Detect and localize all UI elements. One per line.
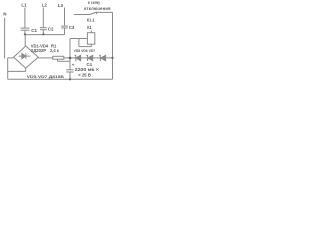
wire K1 top stub	[90, 30, 92, 32]
svg-text:C2: C2	[48, 27, 54, 32]
bridge internal diode wire	[19, 55, 31, 57]
wire bridge bottom stub	[25, 68, 27, 71]
svg-text:C1: C1	[31, 28, 37, 33]
wire N vertical	[4, 18, 6, 59]
wire K1 return vertical	[78, 39, 80, 47]
wire C3 bottom lead	[64, 28, 66, 35]
wire bottom apex to left vertical	[8, 70, 26, 72]
node R1 output junction	[69, 57, 72, 60]
capacitor C2 plates	[40, 27, 47, 29]
wire VD6 to VD7	[93, 57, 101, 59]
node VD7 right junction	[111, 57, 113, 59]
wire C2 bottom lead	[42, 30, 44, 35]
wire VD5 to VD6	[81, 57, 88, 59]
capacitor C3 plates	[61, 25, 68, 27]
capacitor C4 plates	[66, 69, 73, 71]
svg-text:VD5-VD7 Д815Б: VD5-VD7 Д815Б	[27, 74, 64, 79]
svg-text:VD5 VD6 VD7: VD5 VD6 VD7	[74, 48, 96, 53]
zener diode VD6	[87, 55, 89, 61]
resistor R1	[53, 56, 64, 59]
capacitor C1 plates	[21, 27, 30, 29]
bridge internal diode	[22, 54, 26, 59]
wire VD7 to right vertical	[106, 57, 113, 59]
wire right vertical	[112, 12, 114, 79]
svg-text:К1: К1	[87, 25, 92, 30]
svg-text:N: N	[3, 12, 6, 17]
node C2-bus junction	[42, 33, 44, 35]
zener diode VD7	[99, 55, 101, 61]
wire L2 vertical	[42, 8, 44, 28]
wire capacitor bus	[25, 34, 65, 36]
svg-text:C3: C3	[69, 25, 75, 30]
svg-text:отключения: отключения	[84, 6, 111, 11]
wire K1 return horizontal	[79, 46, 91, 48]
wire C1 bottom lead	[24, 30, 26, 34]
svg-text:К1.1: К1.1	[87, 17, 95, 22]
relay coil K1	[87, 33, 94, 45]
wire N-side to bridge left corner	[8, 57, 14, 59]
wire bottom rail	[8, 78, 113, 80]
wire bus to bridge top	[24, 35, 26, 46]
wire K1 bottom stub	[90, 44, 92, 46]
svg-text:L1: L1	[21, 3, 27, 8]
wire left vertical down	[7, 58, 9, 79]
switch K1.1 left wire	[74, 14, 90, 16]
wire bridge right to R1	[38, 57, 53, 59]
wire C4 bottom lead	[69, 72, 71, 79]
wire L3 vertical	[64, 8, 66, 27]
node C4 bottom rail junction	[69, 78, 71, 80]
svg-text:2200 мк ×: 2200 мк ×	[75, 67, 100, 72]
wire R1 to node	[64, 57, 76, 59]
wire node to C4	[69, 58, 71, 70]
switch K1.1 blade	[90, 12, 97, 14]
svg-text:в схему: в схему	[88, 0, 101, 5]
wire L1 vertical	[24, 8, 26, 29]
switch K1.1 right wire	[96, 11, 112, 13]
wire R1 tap stub	[57, 59, 59, 61]
svg-text:2Д202Р: 2Д202Р	[31, 48, 46, 53]
svg-text:L3: L3	[58, 3, 64, 8]
svg-text:2,4 к: 2,4 к	[50, 48, 60, 53]
bridge rectifier VD1-VD4 diamond	[14, 46, 39, 68]
wire tap to C4 column	[58, 60, 71, 62]
node C1-bus junction	[24, 33, 26, 35]
svg-text:L2: L2	[42, 3, 48, 8]
wire node up to K1	[69, 39, 71, 58]
svg-text:× 25 В: × 25 В	[78, 73, 91, 78]
zener diode VD5	[75, 55, 77, 61]
